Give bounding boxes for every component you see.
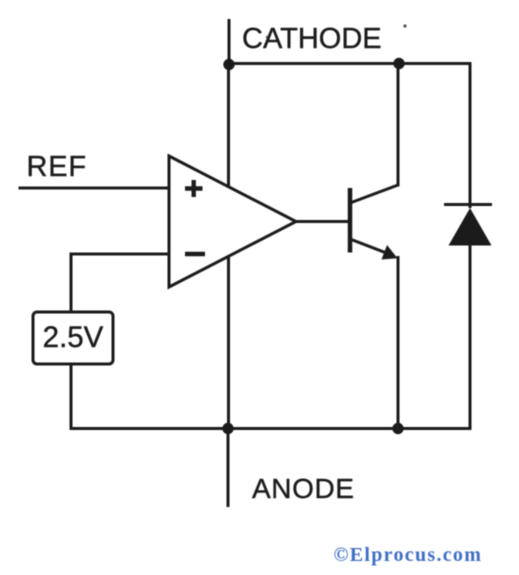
wire inverting input: [71, 253, 169, 256]
watermark Elprocus: [334, 544, 483, 567]
node junction bottom-right: [392, 423, 403, 434]
wire reference box to anode rail: [70, 364, 73, 430]
transistor Q1 base bar: [348, 188, 353, 253]
speck artifact: [403, 24, 406, 27]
wire diode bottom vertical: [469, 246, 472, 431]
transistor emitter arrowhead: [382, 245, 398, 260]
voltage reference 2.5V box: [33, 312, 113, 364]
speck artifact red in A: [266, 36, 269, 39]
wire op-amp output to base: [296, 220, 350, 223]
op-amp plus sign: [185, 180, 203, 197]
wire anode lead: [227, 429, 230, 508]
label REF: [27, 151, 87, 184]
wire emitter vertical: [397, 256, 400, 429]
node junction top-left: [223, 59, 234, 70]
wire bottom rail: [70, 427, 471, 430]
wire op-amp supply lower: [227, 256, 230, 429]
wire emitter diagonal with arrow: [350, 239, 389, 254]
wire cathode stub: [228, 19, 231, 65]
wire non-inverting input REF: [19, 187, 170, 190]
wire collector diagonal: [350, 185, 398, 203]
op-amp U1: [169, 156, 296, 287]
wire collector vertical: [397, 64, 400, 187]
label 2.5V: [33, 312, 113, 364]
node junction top-right: [393, 58, 404, 69]
label ANODE: [252, 473, 355, 505]
wire top rail: [229, 62, 470, 65]
label CATHODE: [242, 23, 382, 56]
node junction bottom-left: [222, 423, 233, 434]
diode D1 cathode bar: [444, 203, 492, 206]
diode D1 triangle: [449, 208, 492, 246]
wire diode top vertical: [469, 62, 472, 208]
wire op-amp supply upper: [227, 64, 230, 188]
op-amp minus sign: [185, 252, 205, 257]
wire to reference box: [70, 253, 73, 313]
